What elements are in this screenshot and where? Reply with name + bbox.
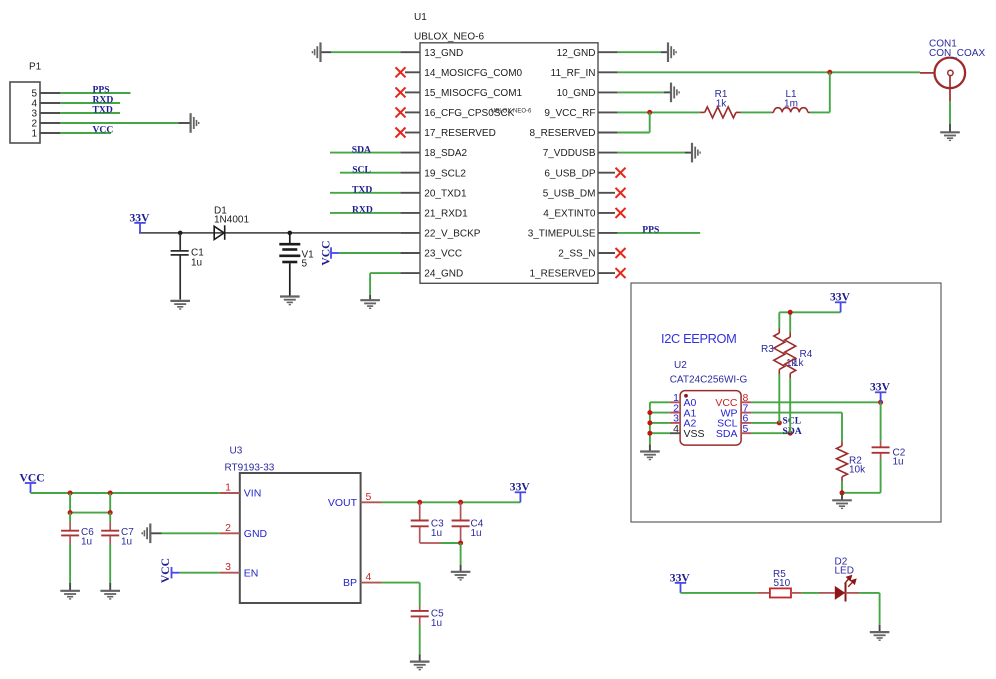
U1 left pin 21_RXD1 stub — [400, 212, 420, 214]
ground stem at LED — [879, 625, 881, 631]
svg-text:33V: 33V — [870, 381, 891, 394]
wire U2 ground rail vertical — [649, 402, 651, 444]
junction at V1 top — [288, 231, 293, 236]
svg-text:U3: U3 — [230, 446, 243, 457]
U1 right pin 9_VCC_RF stub — [598, 111, 618, 113]
junction at 33V C2 node — [878, 400, 883, 405]
svg-text:5: 5 — [366, 491, 372, 503]
U1 left pin 14_MOSICFG_COM0 stub — [405, 71, 420, 73]
junction VOUT at C4 — [458, 500, 463, 505]
U1 left pin 15_MISOCFG_COM1 stub — [405, 91, 420, 93]
svg-text:2_SS_N: 2_SS_N — [558, 249, 595, 260]
svg-text:RT9193-33: RT9193-33 — [225, 463, 275, 474]
U1 right pin 6_USB_DP stub — [598, 172, 615, 174]
wire U2 pin 5 SDA — [751, 432, 790, 434]
junction VIN at C7 — [108, 491, 113, 496]
wire net TXD from P1 pin 3 — [60, 112, 120, 114]
ground stem at C4 — [460, 565, 462, 571]
no-connect X at U1 pin 14_MOSICFG_COM0 — [396, 67, 406, 77]
wire VCC to U3 EN — [180, 572, 220, 574]
junction U2 ground rail at pin 2 — [647, 410, 652, 415]
svg-text:1N4001: 1N4001 — [214, 215, 249, 226]
U1 left pin 22_V_BCKP stub — [400, 232, 420, 234]
wire LED ground riser — [879, 593, 881, 625]
I2C EEPROM container box — [631, 283, 941, 522]
wire CON1 shield to ground — [949, 101, 951, 124]
wire C7 riser — [109, 493, 111, 513]
no-connect X at U1 pin 5_USB_DM — [616, 188, 626, 198]
U1 right pin 1_RESERVED stub — [598, 272, 615, 274]
svg-text:RXD: RXD — [352, 205, 373, 216]
svg-text:1: 1 — [31, 129, 37, 140]
ground stem at C6 — [69, 583, 71, 590]
svg-text:3_TIMEPULSE: 3_TIMEPULSE — [528, 229, 596, 240]
connector P1 body — [10, 82, 40, 143]
svg-text:33V: 33V — [510, 481, 531, 494]
junction R2 bottom — [840, 490, 845, 495]
junction link at C6 — [68, 510, 73, 515]
U3 pin 4 stub — [361, 582, 382, 584]
resistor R4 — [785, 333, 796, 379]
svg-text:10k: 10k — [849, 465, 866, 476]
U1 right pin 8_RESERVED stub — [598, 132, 618, 134]
capacitor C6 — [61, 513, 79, 544]
wire U2 pin 4 to ground rail — [650, 432, 670, 434]
capacitor C4 — [452, 502, 470, 543]
capacitor C3 — [411, 502, 429, 543]
svg-text:BP: BP — [343, 577, 357, 589]
wire C6 to ground — [69, 544, 71, 583]
junction U2 ground rail at pin 4 — [647, 431, 652, 436]
svg-text:PPS: PPS — [642, 225, 659, 236]
svg-text:VIN: VIN — [244, 488, 262, 500]
svg-text:19_SCL2: 19_SCL2 — [424, 168, 466, 179]
no-connect X at U1 pin 6_USB_DP — [616, 168, 626, 178]
wire from U1 pin 10_GND — [618, 91, 664, 93]
wire R4 bottom to SDA — [789, 378, 791, 433]
wire U3 GND to ground — [162, 532, 220, 534]
svg-text:510: 510 — [774, 578, 791, 589]
svg-text:1m: 1m — [784, 99, 798, 110]
ground at LED — [870, 632, 890, 640]
coax connector CON1 outer circle — [935, 58, 966, 89]
wire R2 top riser — [841, 413, 843, 442]
U2 pin 2 stub — [670, 412, 680, 414]
ground stem at U2 rail — [649, 445, 651, 451]
ground at R2 — [832, 500, 852, 508]
U1 left pin 24_GND stub — [400, 272, 420, 274]
svg-text:CON_COAX: CON_COAX — [929, 48, 985, 59]
svg-text:13_GND: 13_GND — [424, 48, 463, 59]
wire pullup tops to 33V — [779, 311, 840, 313]
svg-text:UBLOX NEO-6: UBLOX NEO-6 — [491, 109, 532, 115]
U2 pin 1 stub — [670, 401, 680, 403]
svg-text:12_GND: 12_GND — [557, 48, 596, 59]
wire C6 riser — [69, 493, 71, 513]
U3 pin 3 stub — [220, 572, 240, 574]
ground stem at U1 pin 10_GND — [664, 91, 671, 93]
svg-text:U1: U1 — [414, 12, 427, 23]
svg-text:VCC: VCC — [159, 558, 172, 583]
junction VOUT at C3 — [417, 500, 422, 505]
wire from U1 pin 7_VDDUSB — [618, 152, 685, 154]
coax connector CON1 lead — [920, 72, 934, 74]
svg-text:6_USB_DP: 6_USB_DP — [544, 168, 595, 179]
svg-text:10_GND: 10_GND — [557, 88, 596, 99]
svg-text:GND: GND — [244, 528, 268, 540]
no-connect X at U1 pin 2_SS_N — [616, 248, 626, 258]
U1 right pin 12_GND stub — [598, 51, 618, 53]
diode D1 — [214, 225, 225, 240]
U1 right pin 7_VDDUSB stub — [598, 152, 618, 154]
U2 pin 8 stub — [741, 401, 751, 403]
ground at U3 GND — [142, 524, 150, 544]
wire from U1 pin 24_GND horizontal — [370, 272, 400, 274]
wire VCC_RF junction down to pin 8 — [649, 112, 651, 132]
svg-text:33V: 33V — [670, 571, 691, 584]
wire C2 bottom down — [880, 459, 882, 493]
inductor L1 — [771, 108, 810, 113]
ground at U1 pin 12_GND — [668, 42, 676, 62]
ground at C5 — [410, 662, 430, 670]
junction U2 ground rail at pin 3 — [647, 420, 652, 425]
wire U2 pin 3 to ground rail — [650, 422, 670, 424]
ground at CON1 — [940, 132, 960, 140]
capacitor C1 — [171, 233, 189, 300]
ground at C1 — [170, 301, 190, 309]
svg-text:P1: P1 — [29, 62, 42, 73]
wire from U1 pin 12_GND — [618, 51, 661, 53]
svg-text:1k: 1k — [716, 99, 728, 110]
coax connector CON1 inner pin circle — [948, 70, 953, 75]
svg-text:22_V_BCKP: 22_V_BCKP — [424, 229, 480, 240]
capacitor C2 — [872, 402, 890, 459]
U1 left pin 23_VCC stub — [400, 252, 420, 254]
wire net SDA to U1 pin 18_SDA2 — [330, 152, 400, 154]
U2 pin 3 stub — [670, 422, 680, 424]
svg-text:11_RF_IN: 11_RF_IN — [551, 68, 596, 79]
wire R1 to L1 — [741, 111, 772, 113]
svg-text:SDA: SDA — [352, 144, 371, 155]
svg-text:SDA: SDA — [783, 426, 802, 437]
wire net TXD to U1 pin 20_TXD1 — [330, 192, 400, 194]
P1 pin 3 stub — [40, 112, 60, 114]
P1 pin 2 stub — [40, 122, 60, 124]
ground at U2 rail — [640, 452, 660, 460]
U3 pin 2 stub — [220, 532, 240, 534]
P1 pin 4 stub — [40, 102, 60, 104]
svg-text:20_TXD1: 20_TXD1 — [424, 188, 467, 199]
svg-text:1_RESERVED: 1_RESERVED — [530, 269, 596, 280]
svg-text:SCL: SCL — [352, 164, 371, 175]
wire GND from P1 pin 2 — [60, 122, 179, 124]
wire U2 pin 1 to ground rail — [650, 401, 670, 403]
U1 left pin 19_SCL2 stub — [400, 172, 420, 174]
svg-text:1k: 1k — [793, 358, 805, 369]
IC U2 pin 1 indicator dot — [684, 394, 688, 398]
wire net VCC_RF from U1 pin 9_VCC_RF — [618, 111, 701, 113]
wire D2 to ground corner — [859, 592, 879, 594]
svg-text:33V: 33V — [830, 291, 851, 304]
U1 left pin 16_CFG_CPS0SCK stub — [405, 111, 420, 113]
svg-text:1u: 1u — [81, 537, 92, 548]
svg-text:15_MISOCFG_COM1: 15_MISOCFG_COM1 — [424, 88, 522, 99]
IC U2 body — [680, 391, 741, 446]
wire net RXD to U1 pin 21_RXD1 — [330, 212, 400, 214]
IC U3 body — [240, 473, 361, 603]
ground stem at U1 pin 7_VDDUSB — [685, 152, 692, 154]
capacitor C7 — [101, 513, 119, 544]
ground at C7 — [100, 591, 120, 599]
wire U3 BP — [382, 582, 420, 584]
svg-text:U2: U2 — [674, 360, 687, 371]
svg-text:23_VCC: 23_VCC — [424, 249, 462, 260]
svg-text:4: 4 — [673, 423, 679, 435]
resistor R5 — [758, 588, 802, 597]
ground at C6 — [60, 591, 80, 599]
svg-text:4: 4 — [366, 571, 372, 583]
wire R4 top riser — [789, 312, 791, 332]
wire C4 bottom to ground — [460, 543, 462, 565]
svg-text:VCC: VCC — [20, 471, 45, 484]
ground stem at C5 — [419, 655, 421, 661]
power symbol 33V at LED — [675, 583, 686, 593]
ground at U1 pin 7_VDDUSB — [692, 143, 700, 163]
junction link at C7 — [108, 510, 113, 515]
ground stem at C7 — [109, 583, 111, 590]
ground at P1 pin 2 — [191, 113, 199, 133]
IC U1 body — [420, 43, 598, 283]
svg-text:5: 5 — [302, 259, 308, 270]
junction VIN at C6 — [68, 491, 73, 496]
no-connect X at U1 pin 4_EXTINT0 — [616, 208, 626, 218]
svg-text:I2C EEPROM: I2C EEPROM — [661, 331, 736, 346]
svg-text:3: 3 — [225, 561, 231, 573]
ground at U1 pin 13_GND — [312, 42, 320, 62]
LED D2 — [819, 576, 859, 602]
ground stem at U1 pin 12_GND — [661, 51, 668, 53]
U2 pin 5 stub — [741, 432, 751, 434]
wire net SCL to U1 pin 19_SCL2 — [340, 172, 400, 174]
svg-text:1u: 1u — [431, 618, 442, 629]
wire R3 bottom to SCL — [778, 374, 780, 423]
U2 pin 7 stub — [741, 412, 751, 414]
ground stem at CON1 — [949, 124, 951, 132]
svg-text:2: 2 — [225, 522, 231, 534]
U1 left pin 20_TXD1 stub — [400, 192, 420, 194]
wire C5 to ground — [419, 625, 421, 655]
wire C7 to ground — [109, 544, 111, 583]
wire U2 pin 2 to ground rail — [650, 412, 670, 414]
wire L1 to RF_IN riser — [810, 111, 830, 113]
wire to U1 pin 13_GND — [331, 51, 400, 53]
svg-text:VCC: VCC — [93, 125, 114, 136]
svg-text:SDA: SDA — [716, 428, 738, 440]
svg-text:UBLOX_NEO-6: UBLOX_NEO-6 — [414, 32, 484, 43]
svg-text:LED: LED — [835, 565, 854, 576]
power symbol VCC at U3 EN — [172, 567, 180, 578]
svg-text:5_USB_DM: 5_USB_DM — [543, 188, 596, 199]
U1 right pin 5_USB_DM stub — [598, 192, 615, 194]
resistor R1 — [700, 107, 740, 118]
junction C4 bottom — [458, 541, 463, 546]
svg-text:1u: 1u — [121, 537, 132, 548]
svg-text:4_EXTINT0: 4_EXTINT0 — [543, 209, 596, 220]
wire net RF_IN from U1 pin 11_RF_IN — [618, 71, 920, 73]
wire C3 bottom to C4 bottom — [441, 542, 461, 544]
wire R5 to D2 — [802, 592, 819, 594]
no-connect X at U1 pin 1_RESERVED — [616, 268, 626, 278]
U1 right pin 10_GND stub — [598, 91, 618, 93]
wire from U1 pin 24_GND vertical — [369, 273, 371, 295]
wire 33V to R5 — [681, 592, 758, 594]
wire from U1 pin 8_RESERVED — [618, 132, 650, 134]
wire C2 bottom to R2 bottom — [842, 492, 881, 494]
junction at C1 top — [178, 231, 183, 236]
U2 pin 4 stub — [670, 432, 680, 434]
svg-text:18_SDA2: 18_SDA2 — [424, 148, 467, 159]
junction on VCC_RF net — [647, 110, 652, 115]
U3 pin 5 stub — [361, 501, 382, 503]
svg-text:9_VCC_RF: 9_VCC_RF — [544, 108, 595, 119]
svg-text:1u: 1u — [431, 528, 442, 539]
P1 pin 2 ground stem — [179, 122, 191, 124]
power symbol 33V at D1 input — [134, 223, 145, 233]
U1 right pin 2_SS_N stub — [598, 252, 615, 254]
junction SCL at R3 — [777, 420, 782, 425]
U1 right pin 3_TIMEPULSE stub — [598, 232, 618, 234]
U1 left pin 17_RESERVED stub — [405, 132, 420, 134]
ground stem at U1 pin 13_GND — [321, 51, 332, 53]
wire U2 pin 8 VCC to 33V — [751, 401, 880, 403]
power symbol 33V at C2 — [875, 392, 886, 402]
ground at U1 pin 24_GND — [360, 300, 380, 308]
svg-text:8_RESERVED: 8_RESERVED — [530, 128, 596, 139]
wire net PPS from U1 pin 3_TIMEPULSE — [618, 232, 701, 234]
svg-text:24_GND: 24_GND — [424, 269, 463, 280]
wire VCC to U3 VIN — [31, 492, 220, 494]
svg-text:EN: EN — [244, 567, 259, 579]
U1 right pin 11_RF_IN stub — [598, 71, 618, 73]
wire net PPS from P1 pin 5 — [60, 92, 131, 94]
junction R4 top — [788, 310, 793, 315]
wire R2 bottom to junction — [841, 481, 843, 493]
ground stem at R2 — [841, 493, 843, 500]
svg-text:TXD: TXD — [352, 185, 372, 196]
wire net VCC to U1 pin 23_VCC — [339, 252, 400, 254]
wire VBACKUP net to U1 pin 22_V_BCKP — [139, 232, 400, 234]
U1 left pin 13_GND stub — [400, 51, 420, 53]
wire riser from VCC_RF to RF_IN net — [829, 72, 831, 112]
resistor R3 — [774, 329, 785, 375]
wire U2 pin 6 SCL — [751, 422, 779, 424]
ground at U1 pin 10_GND — [671, 83, 679, 103]
junction on RF_IN net — [827, 70, 832, 75]
power symbol 33V at pullups — [835, 302, 846, 312]
ground at C3 C4 — [451, 572, 471, 580]
wire U2 pin 7 WP to R2 — [751, 412, 842, 414]
ground stem at U1 pin 24_GND — [369, 295, 371, 300]
svg-text:21_RXD1: 21_RXD1 — [424, 209, 468, 220]
svg-text:5: 5 — [743, 423, 749, 435]
wire R3 top riser — [778, 312, 780, 328]
svg-text:TXD: TXD — [93, 105, 113, 116]
wire net VCC from P1 pin 1 — [60, 132, 111, 134]
capacitor C5 — [411, 606, 429, 625]
svg-text:1u: 1u — [893, 457, 904, 468]
P1 pin 5 stub — [40, 92, 60, 94]
U1 left pin 18_SDA2 stub — [400, 152, 420, 154]
svg-text:14_MOSICFG_COM0: 14_MOSICFG_COM0 — [424, 68, 522, 79]
junction SDA at R4 — [788, 431, 793, 436]
no-connect X at U1 pin 17_RESERVED — [396, 128, 406, 138]
U2 pin 6 stub — [741, 422, 751, 424]
wire net RXD from P1 pin 4 — [60, 102, 120, 104]
power symbol VCC at U1 pin 23 — [331, 247, 339, 258]
wire C6 to C7 link — [70, 512, 110, 514]
wire C3 bottom to C4 bottom red part — [420, 542, 441, 544]
U3 pin 1 stub — [220, 492, 240, 494]
power symbol VCC at U3 VIN — [25, 483, 36, 493]
svg-text:VOUT: VOUT — [328, 497, 358, 509]
resistor R2 — [837, 442, 848, 482]
svg-text:1: 1 — [225, 482, 231, 494]
no-connect X at U1 pin 16_CFG_CPS0SCK — [396, 107, 406, 117]
svg-text:17_RESERVED: 17_RESERVED — [424, 128, 496, 139]
wire U3 VOUT to 33V — [382, 501, 521, 503]
no-connect X at U1 pin 15_MISOCFG_COM1 — [396, 87, 406, 97]
U1 right pin 4_EXTINT0 stub — [598, 212, 615, 214]
ground at V1 — [280, 297, 300, 305]
P1 pin 1 stub — [40, 132, 60, 134]
battery V1 — [279, 233, 300, 296]
wire BP riser to C5 — [419, 583, 421, 606]
svg-text:1u: 1u — [471, 528, 482, 539]
power symbol 33V at U3 VOUT — [515, 492, 526, 502]
svg-text:33V: 33V — [130, 211, 151, 224]
svg-text:CAT24C256WI-G: CAT24C256WI-G — [670, 375, 748, 386]
svg-text:R3: R3 — [761, 344, 774, 355]
svg-text:VSS: VSS — [684, 428, 705, 440]
svg-text:VCC: VCC — [319, 240, 332, 265]
CON1 shield stub down — [949, 76, 951, 101]
svg-text:7_VDDUSB: 7_VDDUSB — [543, 148, 596, 159]
ground stem at U3 GND — [150, 532, 161, 534]
svg-text:1u: 1u — [191, 258, 202, 269]
